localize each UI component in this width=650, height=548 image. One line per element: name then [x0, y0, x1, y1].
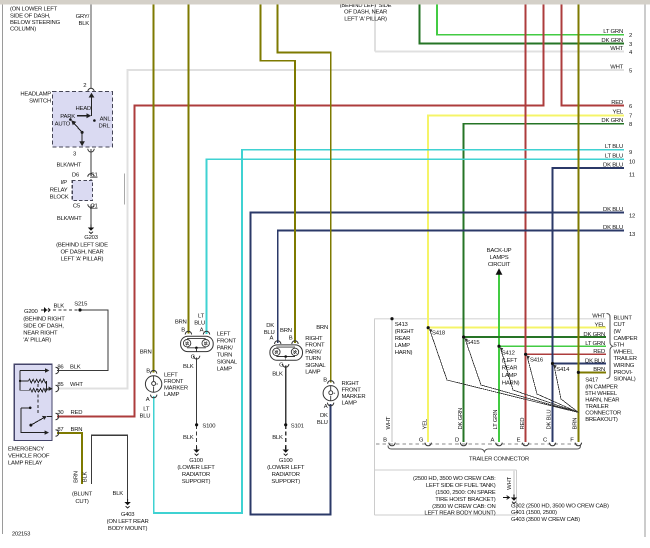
svg-text:(LOWER LEFT: (LOWER LEFT	[267, 465, 305, 471]
svg-text:BLU: BLU	[317, 420, 328, 426]
svg-text:LT GRN: LT GRN	[493, 410, 499, 430]
svg-text:DK GRN: DK GRN	[458, 408, 464, 430]
svg-text:RIGHT: RIGHT	[305, 336, 323, 342]
svg-text:G401 (1500, 2500): G401 (1500, 2500)	[511, 510, 557, 516]
svg-text:G200: G200	[24, 309, 38, 315]
svg-text:OF DASH, NEAR: OF DASH, NEAR	[344, 10, 387, 16]
svg-text:(2500 HD, 3500 WO CREW CAB:: (2500 HD, 3500 WO CREW CAB:	[413, 476, 496, 482]
svg-text:(ON LEFT REAR: (ON LEFT REAR	[107, 519, 149, 525]
svg-text:E: E	[517, 438, 521, 444]
svg-text:9: 9	[629, 150, 632, 156]
svg-text:RADIATOR: RADIATOR	[272, 472, 300, 478]
svg-text:RIGHT: RIGHT	[342, 381, 360, 387]
svg-text:BREAKOUT): BREAKOUT)	[585, 417, 618, 423]
svg-text:'A' PILLAR): 'A' PILLAR)	[23, 337, 51, 343]
svg-text:DK GRN: DK GRN	[601, 38, 623, 44]
svg-text:REAR: REAR	[395, 336, 411, 342]
svg-text:A: A	[200, 327, 204, 333]
svg-text:(3500 W CREW CAB: ON: (3500 W CREW CAB: ON	[432, 504, 495, 510]
svg-text:G403: G403	[121, 512, 135, 518]
svg-text:TRAILER: TRAILER	[585, 404, 608, 410]
svg-text:D: D	[455, 438, 459, 444]
svg-text:ANL: ANL	[100, 117, 112, 123]
svg-text:BRN: BRN	[316, 325, 328, 331]
svg-text:BRN: BRN	[73, 471, 79, 483]
svg-text:(LOWER LEFT: (LOWER LEFT	[177, 465, 215, 471]
svg-text:HEAD: HEAD	[76, 106, 92, 112]
svg-text:DRL: DRL	[99, 124, 111, 130]
svg-text:REAR: REAR	[502, 366, 518, 372]
svg-text:HEADLAMP: HEADLAMP	[20, 92, 51, 98]
svg-text:BLK: BLK	[272, 435, 283, 441]
svg-text:CAMPER: CAMPER	[614, 336, 638, 342]
svg-text:A: A	[490, 438, 494, 444]
svg-text:10: 10	[629, 160, 636, 166]
svg-text:BLK: BLK	[183, 364, 194, 370]
svg-text:LAMP: LAMP	[305, 370, 320, 376]
svg-text:(W: (W	[614, 329, 622, 335]
svg-text:YEL: YEL	[595, 323, 606, 329]
svg-text:HARN): HARN)	[395, 350, 413, 356]
svg-text:OF DASH, NEAR: OF DASH, NEAR	[61, 250, 104, 256]
svg-text:BELOW STEERING: BELOW STEERING	[10, 20, 61, 26]
svg-text:BLK: BLK	[113, 491, 124, 497]
svg-text:SIDE OF DASH,: SIDE OF DASH,	[23, 323, 64, 329]
svg-text:LEFT REAR BODY MOUNT): LEFT REAR BODY MOUNT)	[424, 511, 495, 517]
svg-text:FRONT: FRONT	[164, 379, 184, 385]
svg-text:BLOCK: BLOCK	[50, 195, 69, 201]
svg-text:FRONT: FRONT	[305, 343, 325, 349]
svg-text:B: B	[323, 377, 327, 383]
svg-text:202153: 202153	[12, 532, 31, 538]
svg-text:HARN): HARN)	[502, 381, 520, 387]
svg-text:BACK-UP: BACK-UP	[487, 248, 512, 254]
svg-text:MARKER: MARKER	[164, 386, 188, 392]
svg-text:PARK: PARK	[60, 114, 75, 120]
svg-text:WHEEL: WHEEL	[614, 349, 635, 355]
svg-text:BLK: BLK	[183, 435, 194, 441]
svg-text:D6: D6	[72, 173, 80, 179]
svg-text:RADIATOR: RADIATOR	[182, 472, 210, 478]
svg-text:YEL: YEL	[613, 110, 624, 116]
svg-text:S413: S413	[395, 322, 409, 328]
svg-text:S100: S100	[202, 423, 216, 429]
svg-text:SIGNAL: SIGNAL	[217, 359, 238, 365]
svg-text:RED: RED	[520, 418, 526, 430]
svg-text:G: G	[279, 362, 284, 368]
svg-text:DK BLU: DK BLU	[603, 162, 623, 168]
svg-text:(BEHIND LEFT SIDE: (BEHIND LEFT SIDE	[56, 243, 108, 249]
svg-text:LEFT 'A' PILLAR): LEFT 'A' PILLAR)	[344, 16, 387, 22]
svg-text:BLK: BLK	[70, 364, 81, 370]
svg-text:SWITCH: SWITCH	[29, 99, 51, 105]
svg-text:LAMP: LAMP	[395, 343, 410, 349]
svg-text:BODY MOUNT): BODY MOUNT)	[108, 526, 148, 532]
svg-text:S418: S418	[432, 330, 446, 336]
svg-text:LEFT 'A' PILLAR): LEFT 'A' PILLAR)	[61, 257, 104, 263]
svg-text:5TH: 5TH	[614, 343, 624, 349]
svg-text:G100: G100	[279, 458, 293, 464]
svg-text:WHT: WHT	[610, 46, 623, 52]
svg-text:I/P: I/P	[60, 180, 67, 186]
svg-text:LT GRN: LT GRN	[603, 29, 623, 35]
svg-text:DK GRN: DK GRN	[601, 118, 623, 124]
svg-text:A: A	[146, 397, 150, 403]
svg-text:LT: LT	[143, 407, 150, 413]
svg-text:YEL: YEL	[422, 418, 428, 429]
svg-text:WHT: WHT	[592, 314, 605, 320]
svg-text:BLU: BLU	[194, 320, 205, 326]
svg-text:LT: LT	[198, 313, 205, 319]
svg-text:TRAILER CONNECTOR: TRAILER CONNECTOR	[469, 457, 529, 463]
svg-text:LAMP: LAMP	[217, 366, 232, 372]
svg-text:BLK: BLK	[54, 304, 65, 310]
svg-text:BLUNT: BLUNT	[614, 315, 633, 321]
svg-text:SIGNAL: SIGNAL	[305, 363, 326, 369]
svg-text:WHT: WHT	[70, 382, 83, 388]
svg-text:AUTO: AUTO	[55, 121, 71, 127]
svg-text:FRONT: FRONT	[342, 387, 362, 393]
svg-text:(LEFT: (LEFT	[502, 358, 518, 364]
svg-text:(RIGHT: (RIGHT	[395, 329, 415, 335]
svg-text:NEAR RIGHT: NEAR RIGHT	[23, 330, 58, 336]
svg-text:(ON LOWER LEFT: (ON LOWER LEFT	[10, 7, 58, 13]
svg-text:7: 7	[629, 114, 632, 120]
svg-text:BRN: BRN	[175, 320, 187, 326]
svg-text:SUPPORT): SUPPORT)	[182, 479, 211, 485]
svg-text:(BLUNT: (BLUNT	[72, 492, 93, 498]
svg-text:2: 2	[83, 83, 86, 89]
svg-text:EMERGENCY: EMERGENCY	[8, 447, 44, 453]
svg-text:G: G	[191, 354, 196, 360]
svg-text:BLK: BLK	[83, 471, 89, 482]
svg-text:BRN: BRN	[140, 350, 152, 356]
svg-text:DK: DK	[266, 323, 274, 329]
svg-text:PARK/: PARK/	[217, 345, 234, 351]
svg-text:LEFT: LEFT	[217, 331, 231, 337]
svg-text:85: 85	[57, 382, 64, 388]
svg-text:LEFT SIDE OF FUEL TANK): LEFT SIDE OF FUEL TANK)	[426, 483, 496, 489]
svg-text:BLK: BLK	[272, 372, 283, 378]
svg-text:A: A	[324, 404, 328, 410]
svg-text:LT GRN: LT GRN	[585, 341, 605, 347]
svg-text:(1500, 2500: ON SPARE: (1500, 2500: ON SPARE	[435, 490, 495, 496]
svg-text:13: 13	[629, 232, 636, 238]
svg-text:S101: S101	[291, 423, 304, 429]
svg-text:TURN: TURN	[305, 356, 320, 362]
svg-text:87: 87	[57, 427, 63, 433]
svg-text:BLU: BLU	[139, 414, 150, 420]
svg-text:DK BLU: DK BLU	[547, 410, 553, 430]
svg-text:12: 12	[629, 214, 635, 220]
svg-text:LEFT: LEFT	[164, 373, 178, 379]
svg-text:G203: G203	[84, 235, 98, 241]
svg-text:SIONAL): SIONAL)	[614, 377, 636, 383]
svg-text:86: 86	[57, 364, 64, 370]
svg-text:RED: RED	[611, 100, 623, 106]
svg-text:COLUMN): COLUMN)	[10, 27, 36, 33]
svg-text:HARN, NEAR: HARN, NEAR	[585, 398, 619, 404]
svg-text:DK BLU: DK BLU	[585, 358, 605, 364]
svg-text:(IN CAMPER: (IN CAMPER	[585, 385, 618, 391]
svg-text:TIRE HOIST BRACKET): TIRE HOIST BRACKET)	[435, 497, 495, 503]
svg-text:G100: G100	[189, 458, 203, 464]
svg-text:GRY/: GRY/	[76, 14, 90, 20]
svg-text:BRN: BRN	[71, 427, 83, 433]
svg-text:S215: S215	[74, 302, 88, 308]
svg-text:WHT: WHT	[507, 477, 513, 490]
svg-text:RELAY: RELAY	[50, 188, 68, 194]
svg-text:CONNECTOR: CONNECTOR	[585, 411, 621, 417]
svg-text:G403 (3500 W CREW CAB): G403 (3500 W CREW CAB)	[511, 517, 580, 523]
svg-text:BLK/WHT: BLK/WHT	[57, 163, 82, 169]
svg-text:LAMP: LAMP	[342, 400, 357, 406]
svg-text:MARKER: MARKER	[342, 394, 366, 400]
svg-text:RED: RED	[593, 349, 605, 355]
svg-text:WHT: WHT	[610, 64, 623, 70]
svg-text:30: 30	[57, 410, 64, 416]
svg-text:B: B	[181, 327, 185, 333]
svg-text:DK BLU: DK BLU	[603, 225, 623, 231]
svg-text:C5: C5	[73, 204, 81, 210]
svg-text:2: 2	[629, 33, 632, 39]
svg-text:CUT): CUT)	[75, 499, 88, 505]
svg-text:LT BLU: LT BLU	[605, 144, 623, 150]
svg-text:DK GRN: DK GRN	[583, 332, 605, 338]
svg-text:G: G	[419, 438, 424, 444]
svg-text:RED: RED	[71, 410, 83, 416]
svg-text:5TH WHEEL: 5TH WHEEL	[585, 391, 618, 397]
svg-text:PROVI-: PROVI-	[614, 370, 633, 376]
svg-text:11: 11	[629, 172, 635, 178]
svg-text:S412: S412	[502, 351, 515, 357]
svg-text:WIRING: WIRING	[614, 363, 635, 369]
svg-text:LAMPS: LAMPS	[490, 255, 509, 261]
svg-text:BRN: BRN	[573, 418, 579, 430]
svg-text:LAMP: LAMP	[502, 373, 517, 379]
svg-text:WHT: WHT	[386, 416, 392, 429]
svg-text:LAMP RELAY: LAMP RELAY	[8, 461, 43, 467]
svg-text:S414: S414	[556, 367, 570, 373]
svg-text:CUT: CUT	[614, 322, 626, 328]
svg-text:S415: S415	[467, 340, 481, 346]
svg-text:SIDE OF DASH,: SIDE OF DASH,	[10, 14, 51, 20]
svg-text:VEHICLE ROOF: VEHICLE ROOF	[8, 454, 50, 460]
svg-text:(BEHIND RIGHT: (BEHIND RIGHT	[23, 316, 65, 322]
svg-text:A: A	[269, 335, 273, 341]
svg-text:BLK: BLK	[79, 21, 90, 27]
svg-text:S416: S416	[530, 358, 544, 364]
svg-text:FRONT: FRONT	[217, 338, 237, 344]
svg-text:BRN: BRN	[593, 367, 605, 373]
svg-text:S417: S417	[585, 378, 598, 384]
svg-text:PARK/: PARK/	[305, 349, 322, 355]
svg-text:B: B	[383, 438, 387, 444]
svg-text:BRN: BRN	[280, 328, 292, 334]
svg-text:DK BLU: DK BLU	[603, 207, 623, 213]
svg-text:BLK/WHT: BLK/WHT	[57, 216, 82, 222]
svg-text:B: B	[289, 335, 293, 341]
svg-text:B: B	[146, 369, 150, 375]
svg-text:G302 (2500 HD, 3500 WO CREW C: G302 (2500 HD, 3500 WO CREW CAB)	[511, 504, 609, 510]
svg-text:TRAILER: TRAILER	[614, 356, 637, 362]
svg-text:CIRCUIT: CIRCUIT	[488, 262, 511, 268]
svg-text:LT BLU: LT BLU	[605, 154, 623, 160]
svg-text:LAMP: LAMP	[164, 392, 179, 398]
svg-text:TURN: TURN	[217, 352, 232, 358]
svg-text:SUPPORT): SUPPORT)	[271, 479, 300, 485]
svg-text:DK: DK	[320, 413, 328, 419]
